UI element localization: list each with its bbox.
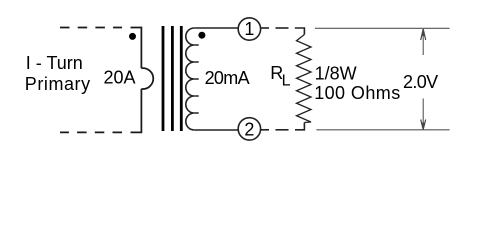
svg-text:Primary: Primary — [25, 74, 90, 94]
svg-text:1: 1 — [244, 19, 254, 39]
svg-text:2.0V: 2.0V — [403, 72, 438, 92]
svg-text:20A: 20A — [104, 68, 136, 88]
svg-text:L: L — [282, 73, 291, 90]
svg-text:20mA: 20mA — [205, 68, 250, 88]
svg-text:1/8W: 1/8W — [315, 63, 357, 83]
svg-text:2: 2 — [244, 119, 254, 139]
svg-text:I - Turn: I - Turn — [26, 53, 83, 73]
svg-text:100 Ohms: 100 Ohms — [314, 83, 400, 103]
